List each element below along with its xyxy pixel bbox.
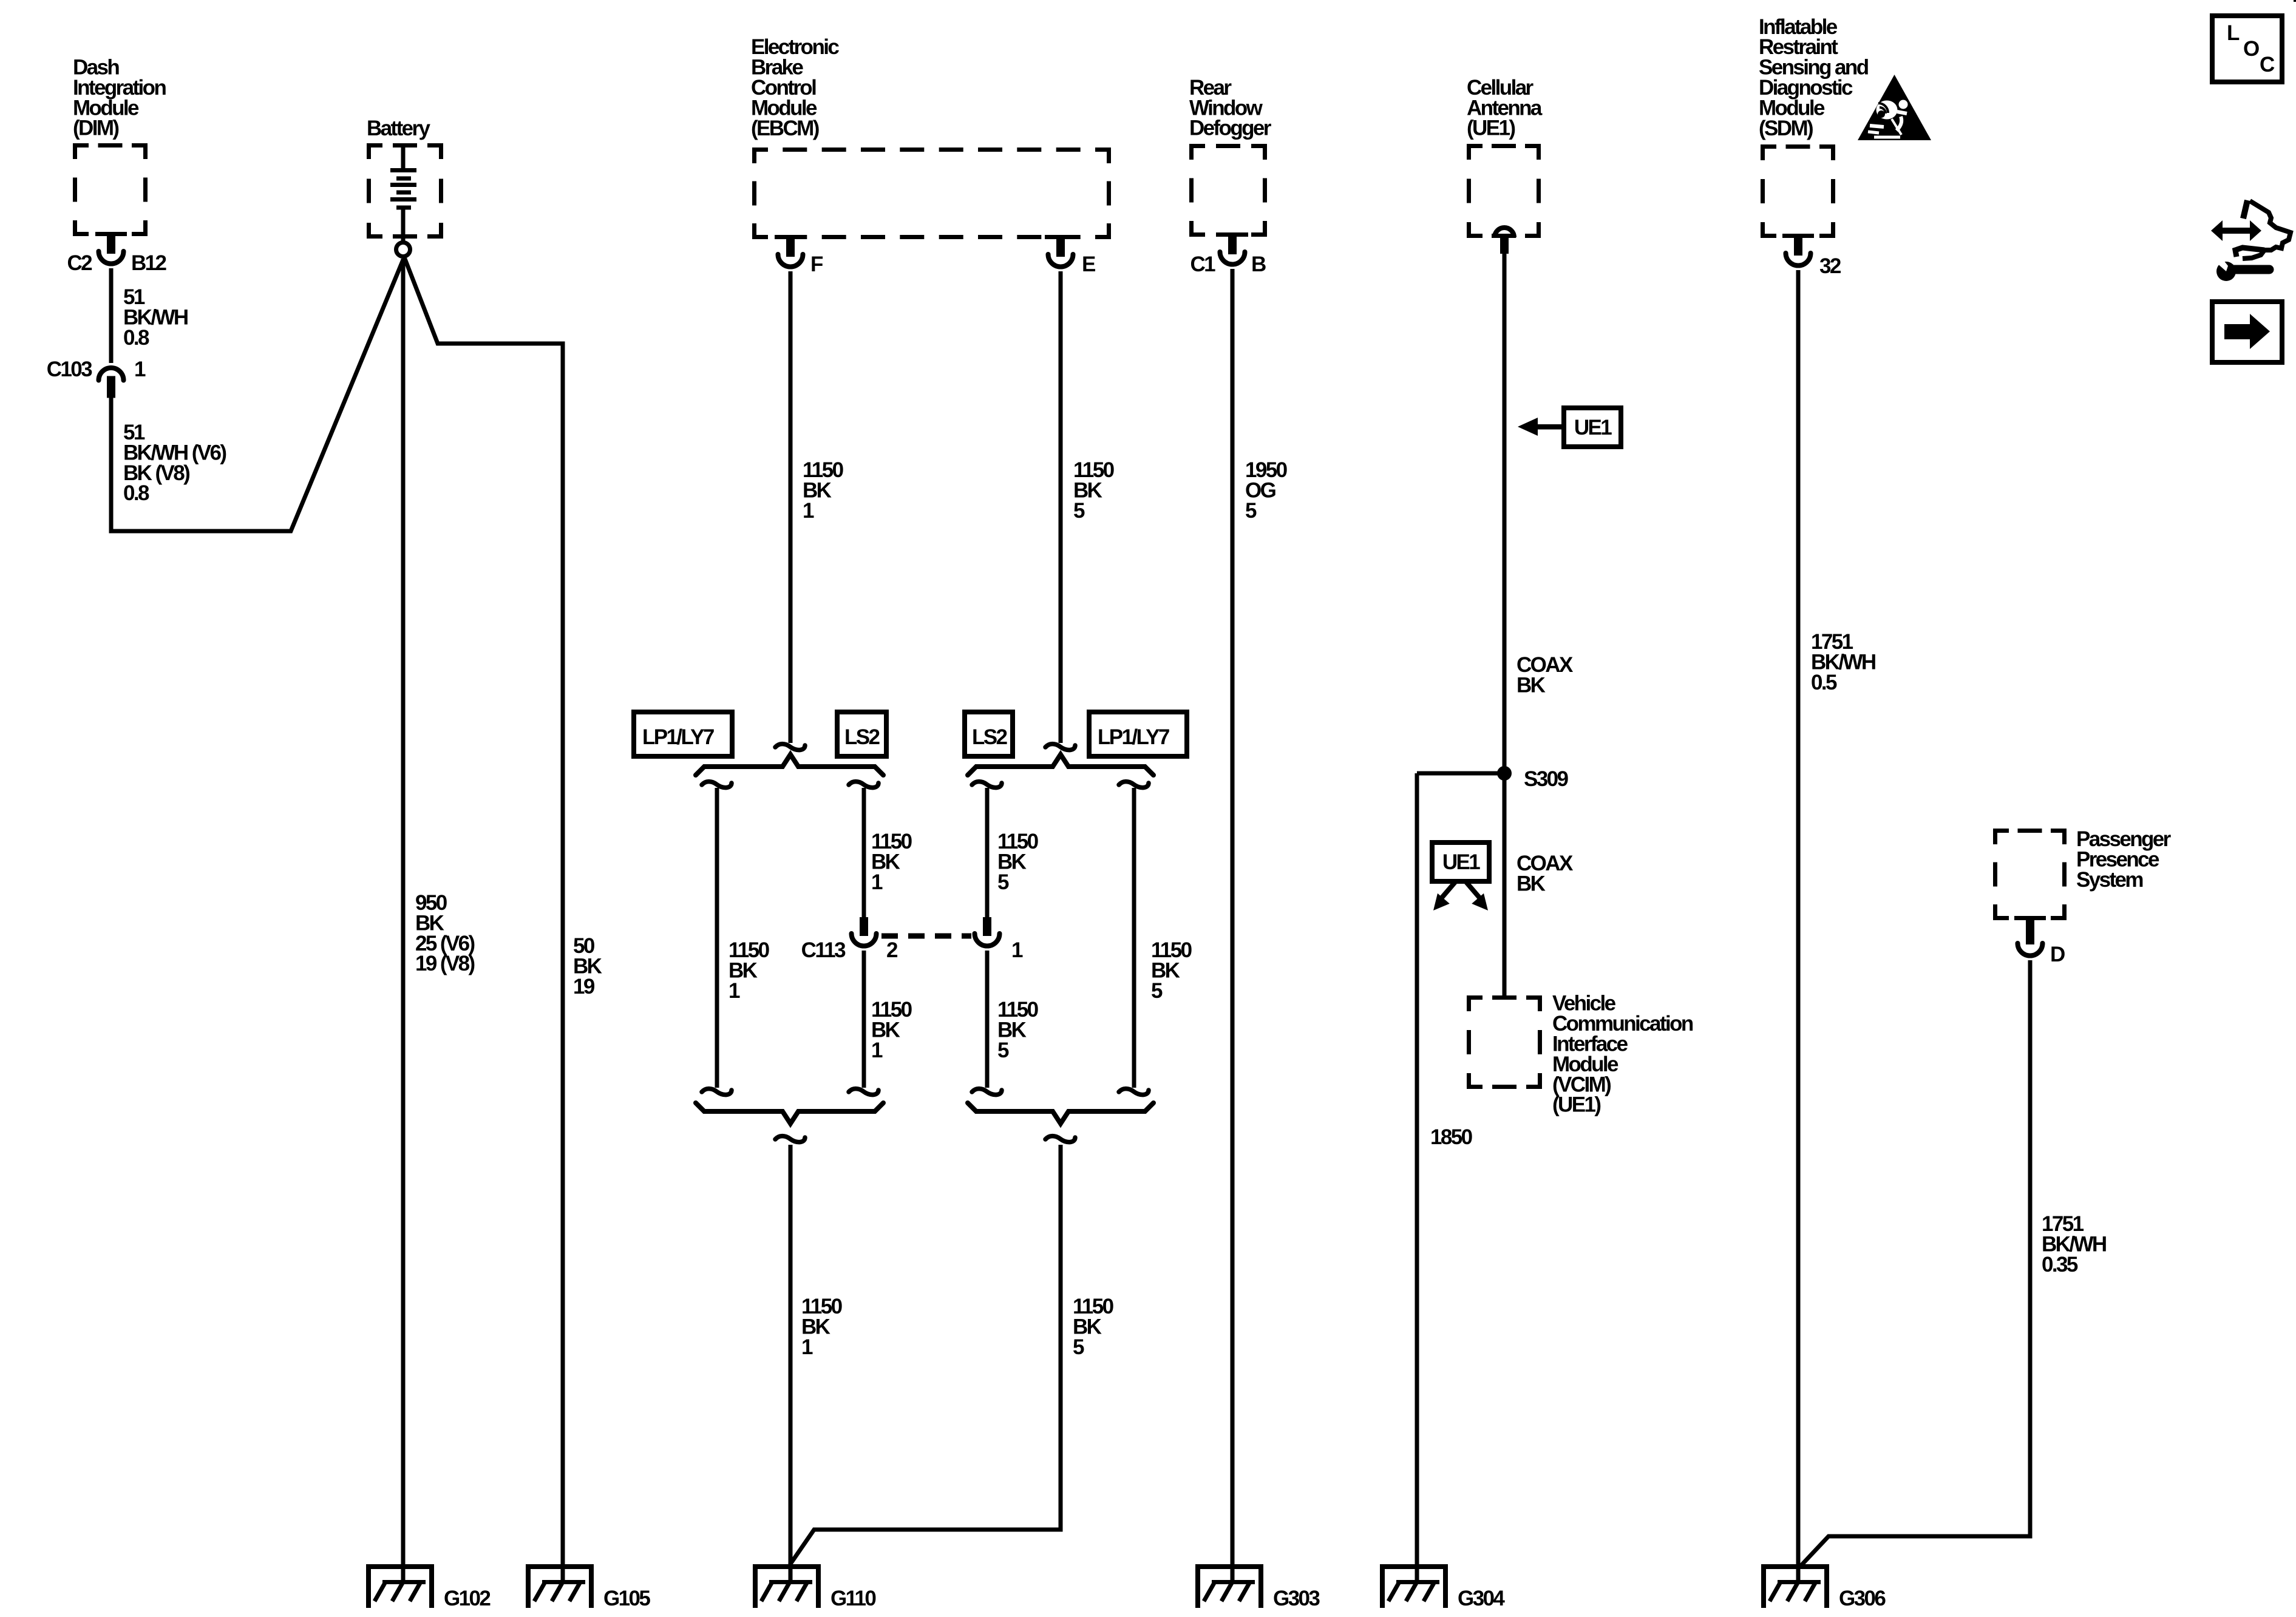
option break on wire E (1045, 744, 1075, 750)
module Passenger Presence System box (1993, 829, 2067, 920)
label wire 1150 BK 5 (LS2 lower) (997, 998, 1039, 1062)
option tag LP1/LY7 right (1089, 712, 1187, 756)
label S309 (1524, 767, 1568, 791)
battery B+ box (367, 143, 443, 239)
label wire 1850 (1430, 1125, 1473, 1149)
svg-text:LS2: LS2 (972, 725, 1008, 749)
option brace bottom right group (968, 1103, 1153, 1124)
connector C103 pin 1 (99, 368, 124, 398)
label Battery (367, 117, 431, 140)
svg-text:5: 5 (1073, 1335, 1084, 1359)
svg-text:System: System (2076, 868, 2142, 892)
svg-text:C1: C1 (1190, 253, 1215, 276)
connector pin E (1048, 239, 1073, 267)
label C1 (1190, 253, 1215, 276)
wire 950 BK battery to G102 (401, 259, 406, 1584)
label pin 32 (1819, 254, 1841, 278)
svg-text:0.8: 0.8 (123, 326, 149, 350)
svg-text:G304: G304 (1458, 1587, 1505, 1610)
wire 1850 S309 to G304 (1417, 773, 1504, 1584)
svg-text:0.8: 0.8 (123, 481, 149, 505)
svg-text:G110: G110 (830, 1587, 876, 1610)
option break on wire F (775, 744, 805, 750)
svg-text:Battery: Battery (367, 117, 431, 140)
label Electronic Brake Control Module (EBCM) (751, 35, 839, 140)
svg-text:5: 5 (997, 1039, 1009, 1062)
ground G110 (753, 1564, 821, 1608)
svg-text:5: 5 (997, 870, 1009, 894)
option tag LS2 right (965, 712, 1013, 756)
svg-text:G306: G306 (1839, 1587, 1886, 1610)
option arrow UE1 lower (1432, 842, 1489, 910)
label wire 1150 BK 1 (803, 458, 844, 523)
label wire 50 BK 19 (573, 934, 602, 998)
svg-text:C2: C2 (67, 251, 92, 275)
svg-text:1: 1 (801, 1335, 813, 1359)
C113 mating link dashed (881, 934, 971, 939)
label Dash Integration Module (DIM) (73, 56, 166, 140)
svg-text:19 (V8): 19 (V8) (415, 952, 475, 975)
connector C113 pin 1 (975, 917, 1000, 946)
wire branch LS2 1150 BK 5 lower (972, 951, 1002, 1095)
svg-text:S309: S309 (1524, 767, 1568, 791)
LOC legend box (2212, 16, 2282, 82)
svg-text:1850: 1850 (1430, 1125, 1473, 1149)
connector pin 32 (1786, 238, 1811, 266)
module Inflatable Restraint Sensing and Diagnostic Module (SDM) box (1761, 144, 1835, 238)
label wire 1150 BK 5 (LP1/LY7 branch) (1151, 938, 1192, 1003)
wire 1150 BK 5 to G110 (790, 1145, 1061, 1565)
label pin 1 (C113) (1011, 938, 1023, 962)
connector pin D (2018, 920, 2043, 956)
ground G304 (1380, 1564, 1448, 1608)
svg-text:(SDM): (SDM) (1759, 117, 1813, 140)
svg-text:C103: C103 (47, 358, 92, 381)
svg-text:(UE1): (UE1) (1467, 117, 1515, 140)
svg-text:F: F (810, 253, 823, 276)
wire 1751 BK/WH 0.5 to G306 (1796, 270, 1801, 1584)
wire 1751 BK/WH 0.35 to G306 (1799, 960, 2030, 1567)
label wire 51 BK/WH (V6) BK (V8) 0.8 (123, 421, 226, 505)
wire COAX BK antenna to VCIM (1503, 254, 1507, 995)
label G102 (444, 1587, 491, 1610)
module Cellular Antenna (UE1) box (1467, 144, 1541, 238)
label G110 (830, 1587, 876, 1610)
option brace top right group (968, 754, 1153, 775)
option tag LS2 left (837, 712, 886, 756)
wire 51 BK/WH segment C2 to C103 (109, 268, 114, 363)
page corner tick (2294, 0, 2296, 2)
label wire 1150 BK 1 (lower) (801, 1295, 843, 1359)
ground G306 (1761, 1564, 1829, 1608)
label wire 1150 BK 5 (LS2 upper) (997, 830, 1039, 894)
label wire 1751 BK/WH 0.35 (2042, 1212, 2106, 1276)
connector pin F (778, 239, 803, 267)
wire branch LS2 1150 BK 1 lower (849, 951, 878, 1095)
wire 1150 BK 1 to G110 (789, 1145, 793, 1584)
svg-text:B12: B12 (131, 251, 167, 275)
svg-text:UE1: UE1 (1442, 850, 1480, 874)
battery negative terminal junction (396, 243, 410, 257)
label wire 1950 OG 5 (1245, 458, 1288, 523)
wire 1950 OG 5 to G303 (1231, 269, 1235, 1584)
label wire 1150 BK 1 (LS2 lower) (871, 998, 912, 1062)
svg-text:5: 5 (1245, 499, 1257, 523)
label pin D (2050, 943, 2065, 966)
label G304 (1458, 1587, 1505, 1610)
svg-text:1: 1 (871, 870, 883, 894)
label C113 (801, 938, 846, 962)
label wire 1150 BK 1 (LP1/LY7 branch) (729, 938, 770, 1003)
svg-text:BK: BK (1517, 872, 1546, 895)
svg-text:1: 1 (1011, 938, 1023, 962)
label pin 1 (134, 358, 146, 381)
svg-text:32: 32 (1819, 254, 1841, 278)
label wire 1150 BK 5 (lower) (1073, 1295, 1114, 1359)
wire 50 BK battery to G105 (404, 257, 563, 1584)
svg-text:LS2: LS2 (844, 725, 880, 749)
option arrow UE1 upper (1518, 408, 1621, 447)
option break below right group (1045, 1136, 1075, 1142)
svg-text:B: B (1251, 253, 1266, 276)
svg-text:C113: C113 (801, 938, 846, 962)
module Electronic Brake Control Module (EBCM) box (752, 147, 1111, 239)
svg-text:Defogger: Defogger (1189, 117, 1272, 140)
svg-text:2: 2 (886, 938, 898, 962)
svg-text:D: D (2050, 943, 2065, 966)
label C103 (47, 358, 92, 381)
label pin B (1251, 253, 1266, 276)
svg-text:UE1: UE1 (1574, 416, 1612, 439)
label G306 (1839, 1587, 1886, 1610)
label wire 1150 BK 1 (LS2 upper) (871, 830, 912, 894)
svg-text:BK: BK (1517, 673, 1546, 697)
wire branch LP1/LY7 1150 BK 1 (702, 782, 732, 1095)
ground G303 (1195, 1564, 1263, 1608)
svg-text:1: 1 (134, 358, 146, 381)
svg-text:1: 1 (871, 1039, 883, 1062)
svg-text:LP1/LY7: LP1/LY7 (1098, 725, 1169, 749)
label pin F (810, 253, 823, 276)
label COAX BK upper (1517, 653, 1574, 697)
label COAX BK lower (1517, 852, 1574, 895)
svg-text:0.35: 0.35 (2042, 1253, 2078, 1276)
svg-text:1: 1 (803, 499, 814, 523)
svg-text:E: E (1082, 253, 1095, 276)
module Vehicle Communication Interface Module (VCIM) box (1467, 995, 1542, 1089)
svg-text:5: 5 (1073, 499, 1085, 523)
svg-text:LP1/LY7: LP1/LY7 (642, 725, 714, 749)
label G303 (1273, 1587, 1320, 1610)
label Cellular Antenna (UE1) (1467, 76, 1543, 140)
option break below left group (775, 1136, 805, 1142)
label pin E (1082, 253, 1095, 276)
splice S309 (1497, 766, 1512, 781)
label wire 1150 BK 5 (1073, 458, 1115, 523)
svg-text:5: 5 (1151, 979, 1163, 1003)
label Passenger Presence System (2076, 827, 2172, 892)
continuation arrow box (2212, 302, 2282, 362)
wire branch LS2 1150 BK 5 upper (972, 782, 1002, 917)
ground G105 (526, 1564, 594, 1608)
svg-text:O: O (2243, 37, 2260, 61)
repair icon hand with wrench (2211, 200, 2291, 281)
label Vehicle Communication Interface Module (VCIM) (UE1) (1552, 992, 1693, 1117)
battery symbol (390, 147, 416, 241)
svg-text:G102: G102 (444, 1587, 491, 1610)
connector C2 pin B12 (99, 236, 124, 264)
label G105 (603, 1587, 650, 1610)
module Dash Integration Module (DIM) box (73, 143, 148, 236)
svg-text:1: 1 (729, 979, 740, 1003)
ground G102 (366, 1564, 434, 1608)
module Rear Window Defogger box (1189, 144, 1267, 237)
wire 1150 BK 5 from pin E (1059, 271, 1063, 743)
antenna coax connector (1495, 228, 1514, 254)
svg-text:19: 19 (573, 975, 595, 998)
label C2 (67, 251, 92, 275)
label wire 1751 BK/WH 0.5 (1811, 630, 1875, 694)
label wire 950 BK 25 (V6) 19 (V8) (415, 891, 475, 975)
label wire 51 BK/WH 0.8 (123, 285, 188, 350)
label pin B12 (131, 251, 167, 275)
option brace top left group (696, 754, 883, 775)
svg-text:C: C (2260, 53, 2275, 76)
airbag warning triangle (1858, 75, 1931, 140)
label Inflatable Restraint Sensing and Diagnostic Module (SDM) (1759, 15, 1869, 140)
label Rear Window Defogger (1189, 76, 1272, 140)
connector C113 pin 2 (852, 917, 877, 946)
wire branch LS2 1150 BK 1 upper (849, 782, 878, 917)
option tag LP1/LY7 left (634, 712, 732, 756)
label pin 2 (886, 938, 898, 962)
svg-text:L: L (2227, 21, 2240, 45)
option brace bottom left group (696, 1103, 883, 1124)
wire branch LP1/LY7 1150 BK 5 (1119, 782, 1149, 1095)
svg-text:G105: G105 (603, 1587, 650, 1610)
svg-text:(UE1): (UE1) (1552, 1093, 1600, 1117)
svg-text:G303: G303 (1273, 1587, 1320, 1610)
svg-text:(EBCM): (EBCM) (751, 117, 819, 140)
connector C1 pin B (1220, 237, 1245, 265)
svg-text:0.5: 0.5 (1811, 671, 1837, 694)
wire 51 segment C103 to battery junction (111, 260, 403, 531)
svg-text:(DIM): (DIM) (73, 117, 118, 140)
wire 1150 BK 1 from pin F (789, 271, 793, 743)
